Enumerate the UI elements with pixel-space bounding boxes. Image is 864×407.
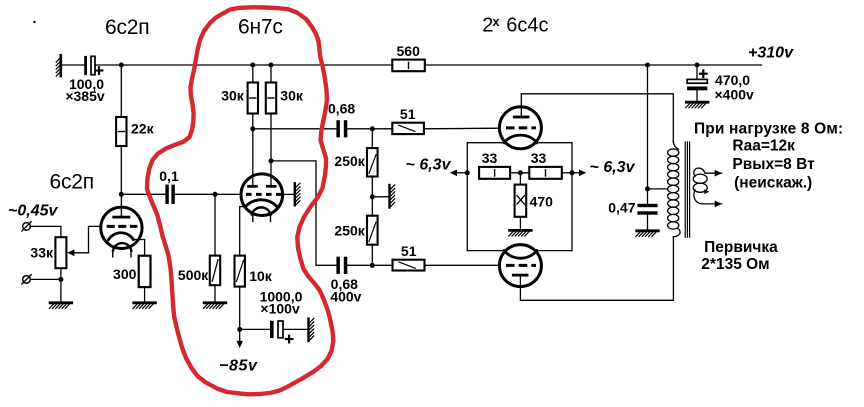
node junction rail to center tap <box>645 63 650 68</box>
resistor R 470 <box>515 185 527 217</box>
node F junction <box>237 327 242 332</box>
node junction rail R 30k b <box>269 63 274 68</box>
chassis ground at node D <box>390 185 395 208</box>
wire R 500k to ground <box>214 285 216 301</box>
label C5 value <box>260 289 303 317</box>
wire V2 grid right to chassis <box>281 193 293 195</box>
wire node C down to R 250k a <box>371 129 373 148</box>
resistor R 500k <box>210 256 220 286</box>
wire R 51 a to V3 grid <box>424 127 500 130</box>
svg-text:2*135 Ом: 2*135 Ом <box>701 256 769 273</box>
wire node B down to R 500k <box>214 194 216 255</box>
svg-text:~0,45v: ~0,45v <box>8 203 58 220</box>
svg-text:470: 470 <box>530 193 554 209</box>
wire C2 to node B <box>175 193 215 195</box>
svg-text:~ 6,3v: ~ 6,3v <box>406 156 452 173</box>
capacitor C5 1000,0x100v electrolytic <box>270 321 292 343</box>
svg-text:×100v: ×100v <box>260 301 300 317</box>
wire R 30k b to V2 anode right <box>270 114 272 186</box>
node junction rail to C7 <box>695 63 700 68</box>
arrow secondary mid tap <box>704 189 709 194</box>
svg-text:~ 6,3v: ~ 6,3v <box>590 159 636 176</box>
svg-text:51: 51 <box>401 243 417 259</box>
wire filament bus left <box>466 143 468 251</box>
svg-text:+310v: +310v <box>748 45 794 62</box>
svg-text:−85v: −85v <box>219 358 258 375</box>
ground under C6 <box>636 231 658 237</box>
capacitor C7 470,0x400v electrolytic <box>687 65 707 101</box>
wire C1 to node <box>95 64 121 66</box>
svg-text:250к: 250к <box>334 153 365 169</box>
ground under R 300 <box>133 303 155 309</box>
svg-text:300: 300 <box>113 266 137 282</box>
svg-text:400v: 400v <box>330 289 361 305</box>
capacitor C2 0,1 <box>165 185 174 204</box>
wire node E to R 51 b <box>372 264 392 266</box>
wiper arrow of R 33k <box>67 250 88 257</box>
node junction anode b <box>269 158 274 163</box>
wire R 250k a to node D <box>371 177 373 216</box>
wire terminal 2 to R 33k bottom <box>30 278 61 280</box>
wire R 30k a to V2 anode left <box>252 114 254 186</box>
wire V4 anode down to primary bottom <box>520 237 673 300</box>
wire top rail left <box>121 64 392 66</box>
capacitor C3 0,68 upper <box>336 120 347 137</box>
wire R 10k to node F <box>239 287 241 330</box>
transformer T1 secondary winding <box>693 168 722 204</box>
transformer T1 primary winding <box>668 141 680 237</box>
svg-text:0,1: 0,1 <box>159 168 179 184</box>
wire rail to R 30k a <box>252 65 254 83</box>
wire R 22k to node A <box>120 146 122 194</box>
ground under C7 <box>686 102 708 108</box>
wire V2 anode b branch <box>271 161 336 265</box>
svg-text:Первичка: Первичка <box>704 239 778 256</box>
input terminal 1 <box>22 222 31 231</box>
wire C4 to node E <box>347 264 372 266</box>
wire V3 anode up and right to primary top <box>521 94 673 143</box>
wire V4 filament right <box>537 250 573 252</box>
resistor R 300 <box>139 256 151 287</box>
wire chassis to C1 <box>62 64 84 66</box>
svg-text:×385v: ×385v <box>65 88 105 104</box>
resistor R 30k b <box>266 83 276 114</box>
wire wiper to V1 grid <box>89 226 101 252</box>
resistor R 250k a <box>367 148 378 176</box>
ground under R 33k <box>49 303 71 309</box>
label 0,68 400v lower <box>330 276 361 305</box>
resistor R 22k <box>116 117 126 146</box>
svg-text:30к: 30к <box>280 88 304 104</box>
node junction top of R 22k <box>119 63 124 68</box>
wire R 33k to ground <box>60 268 62 301</box>
capacitor C1 100,0x385v electrolytic <box>84 56 102 75</box>
note text block load <box>694 120 843 191</box>
node junction R 33k bottom <box>58 277 63 282</box>
wire R 33 a to node G <box>510 172 529 174</box>
resistor R 560 <box>392 60 425 72</box>
wire top rail right <box>425 64 762 66</box>
svg-text:10к: 10к <box>249 268 273 284</box>
wire V3 filament right <box>537 142 573 144</box>
wire node D to chassis <box>372 196 388 198</box>
svg-text:Рвых=8 Вт: Рвых=8 Вт <box>732 156 815 173</box>
triode V1 6s2p <box>101 194 142 256</box>
svg-text:Raa=12к: Raa=12к <box>732 137 795 154</box>
red freehand loop <box>147 7 333 394</box>
svg-text:При нагрузке 8 Ом:: При нагрузке 8 Ом: <box>694 120 843 137</box>
node C junction <box>370 126 375 131</box>
svg-text:33: 33 <box>531 150 547 166</box>
ground under R 500k <box>203 303 225 309</box>
wire rail to R 30k b <box>270 65 272 83</box>
node junction center tap <box>645 186 650 191</box>
title 2x 6s4s <box>482 14 548 36</box>
node junction rail R 30k a <box>250 63 255 68</box>
svg-text:22к: 22к <box>131 121 155 137</box>
svg-text:6с2п: 6с2п <box>105 16 149 39</box>
node G junction <box>518 170 523 175</box>
wire anode a to C3 <box>253 128 337 130</box>
wire node G to R 470 <box>519 173 521 185</box>
svg-text:30к: 30к <box>221 88 245 104</box>
resistor R 33 b <box>529 167 562 179</box>
svg-text:33к: 33к <box>30 245 54 261</box>
resistor R 250k b <box>367 216 378 245</box>
node A junction <box>119 192 124 197</box>
wire center tap to primary <box>648 188 667 190</box>
arrow to -85v supply <box>236 329 243 348</box>
resistor R 33 a <box>479 167 510 179</box>
wire R 33 b to bus right <box>562 172 572 174</box>
node junction bus right <box>570 170 575 175</box>
node junction bus left <box>465 170 470 175</box>
svg-text:0,68: 0,68 <box>328 100 355 116</box>
wire C5 to chassis <box>283 328 307 330</box>
chassis ground at C5 <box>309 319 314 342</box>
arrow heater right <box>572 170 586 177</box>
speck top left <box>33 21 35 23</box>
chassis ground top-left <box>56 55 61 76</box>
wire terminal 1 to R 33k <box>30 226 61 237</box>
wire rail down to R 22k <box>120 65 122 117</box>
svg-text:560: 560 <box>397 43 421 59</box>
wire node A to C2 <box>121 193 165 195</box>
wire R 51 b to V4 grid <box>425 264 500 266</box>
wire C3 to node C <box>347 128 372 130</box>
svg-text:51: 51 <box>400 106 416 122</box>
svg-text:250к: 250к <box>334 222 365 238</box>
potentiometer R 33k <box>55 237 66 268</box>
wire node C to R 51 a <box>372 128 392 130</box>
wire R 470 to ground <box>519 217 521 229</box>
double triode V2 6n7s <box>241 174 283 222</box>
capacitor C6 0,47 <box>637 204 657 215</box>
svg-text:×400v: ×400v <box>715 86 755 102</box>
wire rail down to center tap <box>647 65 649 204</box>
wire filament bus right <box>571 143 573 251</box>
transformer T1 core <box>685 142 689 237</box>
node E junction <box>370 263 375 268</box>
wire V3 filament left <box>467 142 504 144</box>
chassis ground at V2 <box>295 183 300 205</box>
wire C6 to ground <box>647 215 649 230</box>
svg-text:6с2п: 6с2п <box>50 171 94 194</box>
svg-text:6с4с: 6с4с <box>506 14 548 36</box>
wire V2 cathode to R 10k <box>240 207 246 256</box>
ground under R 470 <box>509 230 531 236</box>
arrow heater left <box>450 170 468 177</box>
node D junction <box>370 194 375 199</box>
arrow secondary output top <box>715 170 722 177</box>
wire R 300 to ground <box>144 287 146 302</box>
wire V1 cathode to R 300 <box>133 240 144 256</box>
capacitor C4 0,68 lower <box>336 257 347 274</box>
resistor R 10k <box>235 256 245 287</box>
svg-text:500к: 500к <box>178 267 209 283</box>
node B junction <box>213 192 218 197</box>
note text primary resistance <box>701 239 778 273</box>
wire R 250k b to node E <box>371 245 373 266</box>
resistor R 30k a <box>248 83 258 114</box>
svg-text:6н7с: 6н7с <box>238 16 283 39</box>
arrow secondary output bottom <box>715 201 722 208</box>
label C1 value <box>65 76 105 104</box>
wire V4 filament left <box>467 250 504 252</box>
node junction anode a <box>250 126 255 131</box>
svg-text:х: х <box>493 15 500 29</box>
svg-text:0,47: 0,47 <box>608 199 635 215</box>
svg-text:33: 33 <box>482 150 498 166</box>
triode V3 6s4s upper <box>499 107 541 149</box>
triode V4 6s4s lower <box>499 245 541 287</box>
resistor R 51 b <box>393 260 425 271</box>
wire node B to V2 grid <box>215 193 242 195</box>
wire node F to C5 <box>240 328 270 330</box>
label C7 value <box>715 72 755 102</box>
input terminal 2 <box>22 275 31 284</box>
resistor R 51 a <box>392 123 424 134</box>
svg-text:(неискаж.): (неискаж.) <box>734 175 812 192</box>
